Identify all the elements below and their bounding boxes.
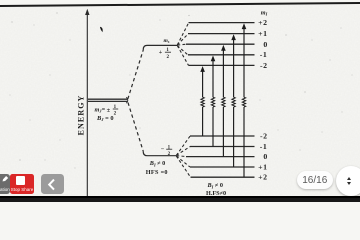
zeeman level -1/2: [143, 152, 176, 156]
label HFS≠0 (right column): [206, 190, 226, 197]
lower level mI=0: [186, 156, 255, 158]
transition 4 (mI=+1): [231, 34, 236, 167]
stepper up arrow: [347, 177, 351, 180]
top border line of video frame: [0, 3, 360, 6]
svg-text:=: =: [102, 107, 106, 113]
stop icon: [16, 176, 25, 185]
zeeman level +1/2: [143, 45, 177, 49]
svg-text:+2: +2: [258, 18, 267, 27]
transition 2 (mI=-1): [211, 56, 216, 147]
collapse chevron button: [41, 174, 64, 194]
svg-text:+2: +2: [258, 173, 267, 182]
lower level mI=-1: [190, 146, 255, 148]
label mI (column header): [261, 9, 268, 16]
lower fan dashed connectors: [176, 136, 190, 177]
svg-text:0: 0: [263, 152, 267, 161]
page indicator text: [297, 175, 334, 186]
lower level mI=-2: [190, 135, 255, 137]
pen icon: [0, 174, 11, 184]
svg-text:-2: -2: [260, 61, 268, 70]
central level mJ=±1/2 (B=0): [88, 97, 128, 103]
label mJ = ± 1/2: [95, 105, 119, 116]
label HFS = 0 (middle column): [146, 169, 168, 176]
label BJ = 0: [96, 115, 114, 122]
lower level labels: [260, 131, 268, 140]
svg-text:-1: -1: [260, 50, 268, 59]
upper level mI=+1: [188, 33, 255, 35]
svg-text:+1: +1: [258, 162, 267, 171]
label ms (upper): [164, 38, 170, 44]
scroll stepper circle button: [336, 166, 360, 196]
axis label ENERGY: [77, 95, 86, 136]
upper level mI=-2: [189, 64, 255, 66]
svg-text:−: −: [161, 146, 165, 153]
energy axis: [85, 9, 89, 196]
transition 5 (mI=+2): [242, 23, 247, 177]
stop share label: [10, 187, 34, 192]
svg-text:0: 0: [263, 40, 267, 49]
annotation label (clipped): [0, 187, 19, 192]
svg-text:+1: +1: [258, 29, 267, 38]
scan grain overlay: [0, 5, 360, 196]
annotation button (cut off at left): [0, 174, 10, 194]
svg-text:ENERGY: ENERGY: [77, 95, 86, 136]
label - 1/2: [161, 145, 173, 157]
svg-text:BI ≠ 0: BI ≠ 0: [207, 182, 223, 189]
label BI≠0 (right column): [207, 182, 223, 189]
lower level mI=+1: [190, 166, 255, 168]
svg-text:HFS =0: HFS =0: [146, 169, 168, 176]
page indicator pill 16/16: [297, 171, 334, 188]
svg-text:-2: -2: [260, 131, 268, 140]
transition 3 (mI=0): [221, 45, 226, 157]
dashed connector down to -1/2: [128, 103, 143, 152]
svg-text:+: +: [159, 49, 163, 56]
dashed connector up to +1/2: [128, 50, 144, 100]
upper fan dashed connectors: [177, 23, 188, 65]
upper level mI=+2: [189, 22, 255, 24]
stop share button: [10, 174, 34, 194]
label BI≠0 (middle column): [149, 160, 165, 167]
chevron icon: [44, 178, 60, 192]
lower level mI=+2: [191, 176, 255, 178]
stepper down arrow: [347, 182, 351, 185]
label + 1/2: [159, 48, 171, 60]
upper level mI=0: [186, 43, 255, 45]
transition 1 (mI=-2): [200, 66, 205, 136]
ink blot speck near axis top: [100, 27, 103, 32]
svg-text:±: ±: [107, 107, 111, 114]
svg-text:-1: -1: [260, 142, 268, 151]
scan dust specks (decorative): [10, 12, 353, 168]
upper level mI=-1: [188, 54, 255, 56]
svg-text:ms: ms: [164, 38, 170, 44]
bottom black bar: [0, 196, 360, 202]
svg-text:BI ≠ 0: BI ≠ 0: [149, 160, 165, 167]
upper level labels: [258, 18, 267, 27]
svg-text:BJ = 0: BJ = 0: [96, 115, 114, 122]
